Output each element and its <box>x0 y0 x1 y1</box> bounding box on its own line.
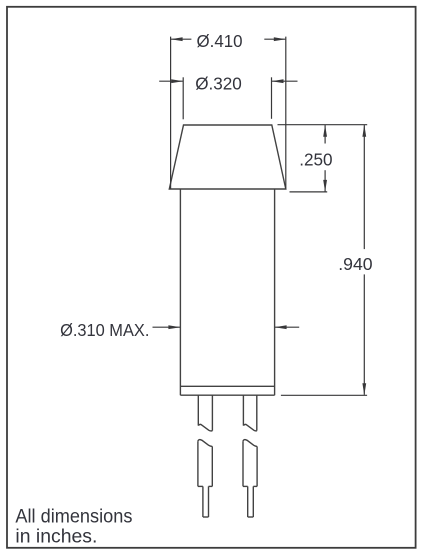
svg-text:.250: .250 <box>299 149 332 169</box>
leader line Ø.310 MAX. left <box>153 326 181 328</box>
lead 2 lower segment with break and wire tip <box>243 440 257 517</box>
lamp flange bottom line <box>180 394 274 396</box>
arrowhead Ø.320 left <box>171 79 183 83</box>
dimension Ø.410 extension lines <box>171 37 286 189</box>
lamp flange top line <box>180 385 274 387</box>
lamp body right edge <box>274 189 276 395</box>
dimension .940 dimension line <box>363 125 365 395</box>
arrowhead .250 top <box>323 125 327 137</box>
lead 2 upper segment <box>243 395 256 431</box>
svg-text:Ø.310 MAX.: Ø.310 MAX. <box>60 320 149 340</box>
arrowhead .250 bottom <box>323 180 327 192</box>
dimension Ø.320 dimension line <box>159 80 297 82</box>
svg-text:in inches.: in inches. <box>15 527 97 548</box>
arrowhead .940 top <box>362 125 366 137</box>
arrowhead Ø.310 MAX. left (points right) <box>168 325 180 329</box>
lead 1 upper segment <box>198 395 212 431</box>
lamp lens cap (trapezoid outline) <box>169 125 285 189</box>
note: all dimensions in inches <box>15 507 132 548</box>
arrowhead Ø.310 MAX. right (points left) <box>275 325 287 329</box>
dimension .940 bottom extension line <box>281 394 367 396</box>
lamp body left edge <box>179 189 181 395</box>
dimension Ø.320 extension lines <box>183 77 271 119</box>
lead 1 lower segment with break and wire tip <box>198 440 212 517</box>
dimension .250/.940 top extension line <box>278 124 368 126</box>
svg-text:Ø.320: Ø.320 <box>195 74 242 94</box>
dimension .250 dimension line <box>324 125 326 191</box>
arrowhead Ø.410 left <box>171 37 183 41</box>
arrowhead Ø.320 right <box>272 79 284 83</box>
svg-text:.940: .940 <box>338 254 372 274</box>
arrowhead Ø.410 right <box>274 37 286 41</box>
arrowhead .940 bottom <box>362 383 366 395</box>
svg-text:All dimensions: All dimensions <box>15 507 132 528</box>
leader line Ø.310 MAX. right <box>275 326 299 328</box>
dimension Ø.410 dimension line <box>171 38 285 40</box>
svg-text:Ø.410: Ø.410 <box>197 31 243 51</box>
dimension .250 bottom extension line <box>290 191 328 193</box>
